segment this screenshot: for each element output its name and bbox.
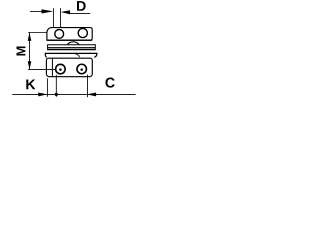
C arrow xyxy=(87,93,96,97)
D ext line left xyxy=(52,8,54,27)
label D xyxy=(77,1,86,11)
band mid line xyxy=(48,47,96,49)
M ext top xyxy=(28,32,47,34)
band left end xyxy=(47,44,49,50)
knuckle small arc xyxy=(76,54,80,57)
lower hole 1 outer xyxy=(56,64,66,74)
label C xyxy=(105,78,114,88)
D arrow right xyxy=(61,10,70,14)
band right end xyxy=(94,44,96,50)
D dim line right xyxy=(69,12,91,14)
M ext bottom / hole centerline xyxy=(28,69,56,71)
lower hole 2 outer xyxy=(77,64,87,74)
dot terminator xyxy=(55,93,58,96)
D dim line left xyxy=(30,10,46,12)
knuckle dome xyxy=(67,42,79,45)
bottom ext line dot xyxy=(55,75,57,97)
upper hole 2 xyxy=(78,28,87,37)
D arrow left xyxy=(42,9,54,13)
lower hole 1 dot xyxy=(59,68,62,71)
band top line xyxy=(48,44,96,46)
bottom ext line C xyxy=(86,75,88,98)
M arrow down xyxy=(28,61,32,69)
label M xyxy=(17,46,26,55)
K arrow xyxy=(38,93,47,97)
M dim line xyxy=(29,33,31,70)
upper leaf outline xyxy=(47,28,92,41)
band bottom line xyxy=(48,49,96,51)
D ext line right xyxy=(60,8,62,27)
pin line A xyxy=(45,53,97,57)
bottom dim line xyxy=(12,93,135,95)
bottom ext line K xyxy=(46,78,48,97)
lower leaf outline xyxy=(46,58,92,76)
leaf fold line xyxy=(51,58,53,76)
M arrow up xyxy=(28,33,32,41)
label K xyxy=(26,80,35,90)
lower hole 2 dot xyxy=(80,68,83,71)
upper leaf bottom edge xyxy=(47,39,92,41)
upper hole 1 xyxy=(55,30,64,39)
